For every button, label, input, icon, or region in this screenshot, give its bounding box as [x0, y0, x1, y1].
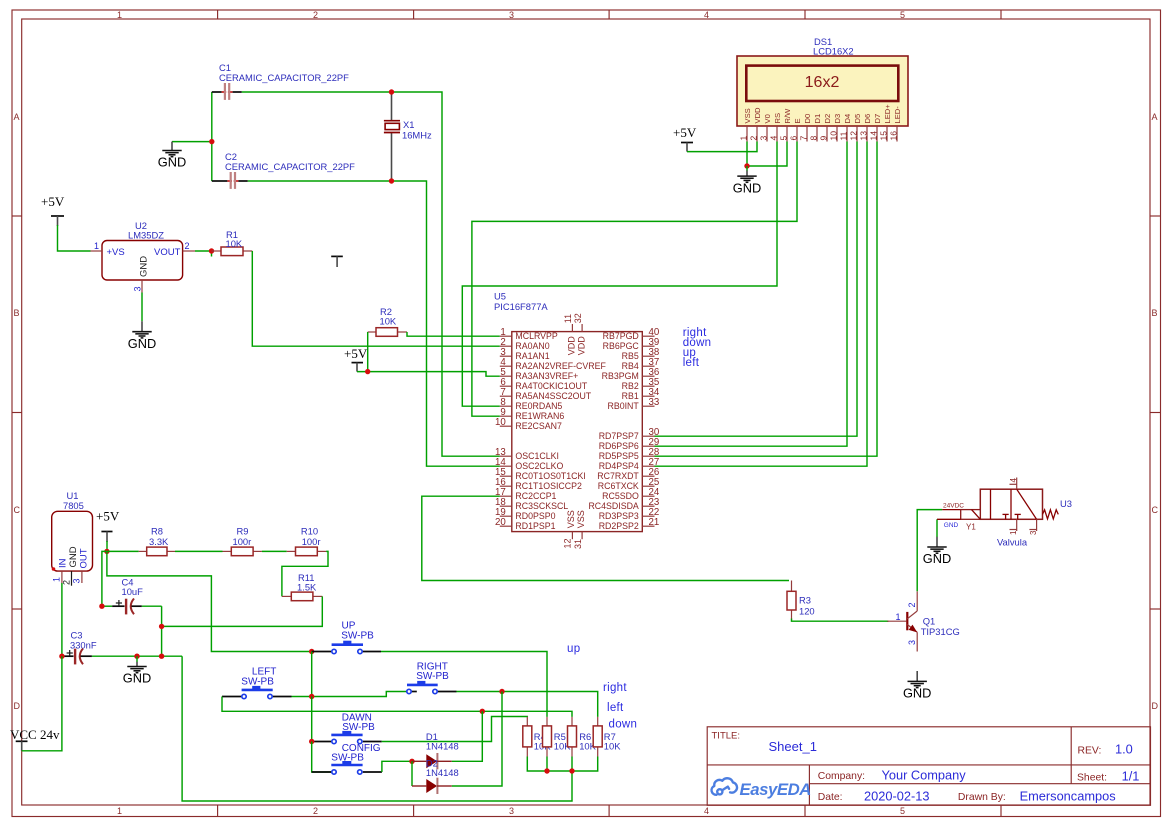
svg-text:1: 1	[896, 612, 901, 622]
wire gnd rail down to bottom rail	[182, 656, 572, 801]
svg-text:REV:: REV:	[1078, 745, 1102, 756]
svg-text:IN: IN	[58, 558, 69, 568]
resistor R2	[368, 306, 407, 336]
node junction X1 top	[389, 89, 394, 94]
wire +5V down to junction	[106, 541, 108, 551]
svg-text:1: 1	[1009, 530, 1018, 535]
wire U1 IN down to VCC rail	[61, 583, 63, 656]
svg-text:R9: R9	[237, 526, 249, 537]
svg-text:1: 1	[739, 136, 749, 141]
SECTION:BUTTONS	[222, 621, 637, 795]
svg-text:14: 14	[869, 131, 879, 141]
svg-text:120: 120	[799, 606, 815, 617]
node junction diode anodes	[409, 759, 414, 764]
svg-text:A: A	[1152, 112, 1158, 122]
svg-text:4: 4	[1009, 478, 1018, 483]
wire left vertical C1-C2	[211, 92, 213, 181]
svg-text:Sheet_1: Sheet_1	[769, 739, 817, 754]
svg-text:13: 13	[859, 131, 869, 141]
svg-text:RD6PSP6: RD6PSP6	[599, 441, 639, 451]
node junction DAWN row	[309, 739, 314, 744]
svg-text:8: 8	[809, 136, 819, 141]
node junction R2/+5V	[365, 369, 370, 374]
switch UP SW-PB	[312, 621, 381, 654]
svg-text:RA4T0CKIC1OUT: RA4T0CKIC1OUT	[515, 381, 587, 391]
U5 right pin names	[588, 331, 639, 531]
svg-text:2: 2	[62, 580, 72, 585]
power +5V flag left	[41, 194, 65, 226]
svg-text:3: 3	[759, 136, 769, 141]
U5 right pin numbers	[649, 327, 660, 528]
wire LCD D4 to PIC RD6	[655, 142, 848, 447]
ground symbol valve	[923, 537, 951, 566]
svg-text:RD0PSP0: RD0PSP0	[515, 511, 555, 521]
svg-text:1.0: 1.0	[1115, 741, 1133, 756]
svg-text:VDD: VDD	[576, 336, 586, 356]
svg-text:RD1PSP1: RD1PSP1	[515, 521, 555, 531]
svg-text:1: 1	[94, 241, 99, 251]
resistor R1	[212, 229, 253, 256]
svg-text:R3: R3	[799, 595, 811, 606]
wire DAWN to R4	[382, 717, 528, 742]
U5 top/bottom pin numbers	[563, 313, 583, 549]
ground symbol under Q1	[903, 671, 931, 701]
svg-text:C: C	[1152, 505, 1159, 515]
wire +5V to LCD VDD	[687, 142, 757, 152]
svg-text:RA5AN4SSC2OUT: RA5AN4SSC2OUT	[515, 391, 591, 401]
switch LEFT SW-PB	[222, 666, 292, 698]
svg-text:RB6PGC: RB6PGC	[603, 341, 640, 351]
svg-text:A: A	[14, 112, 20, 122]
svg-text:D6: D6	[863, 114, 872, 124]
svg-text:9: 9	[819, 136, 829, 141]
svg-text:U5: U5	[494, 291, 506, 302]
capacitor C2	[212, 151, 355, 189]
svg-text:up: up	[567, 643, 580, 655]
node junction R6 bottom	[569, 768, 574, 773]
wire R9 to R10	[262, 550, 287, 552]
svg-text:D1: D1	[813, 114, 822, 124]
svg-text:16: 16	[889, 131, 899, 141]
svg-text:RS: RS	[773, 113, 782, 124]
svg-text:4: 4	[769, 136, 779, 141]
svg-text:OSC2CLKO: OSC2CLKO	[515, 461, 563, 471]
svg-text:RC5SDO: RC5SDO	[602, 491, 639, 501]
resistor R10	[287, 526, 326, 556]
svg-text:33: 33	[649, 397, 660, 408]
resistor R11	[282, 572, 322, 601]
wire C1 row	[242, 92, 500, 456]
svg-text:16MHz: 16MHz	[402, 130, 432, 141]
SECTION:VALVE	[887, 478, 1072, 701]
SECTION:PIC	[422, 291, 889, 622]
wire LCD D5 to PIC RD7	[655, 142, 858, 437]
wire R2 to PIC MCLR	[407, 332, 500, 336]
wire left-row to R6	[482, 711, 572, 717]
svg-text:6: 6	[789, 136, 799, 141]
wire junction down to C4 row	[102, 551, 107, 606]
wire down to LEFT row	[311, 652, 313, 697]
svg-text:D3: D3	[833, 114, 842, 124]
LCD pins 1-16 stubs and labels	[747, 126, 897, 142]
wire valve gnd	[936, 519, 938, 537]
svg-text:R/W: R/W	[783, 108, 792, 124]
svg-text:10: 10	[829, 131, 839, 141]
wire R10 to R11	[282, 551, 328, 596]
wire C4 right to vertical	[142, 605, 162, 607]
svg-text:SW-PB: SW-PB	[341, 631, 374, 642]
svg-text:2: 2	[185, 241, 190, 251]
transistor Q1 TIP31CG	[887, 591, 959, 651]
svg-text:10uF: 10uF	[122, 586, 144, 597]
svg-text:U3: U3	[1060, 498, 1072, 509]
svg-text:X1: X1	[403, 119, 414, 130]
svg-text:Date:: Date:	[818, 792, 843, 803]
svg-text:Q1: Q1	[923, 616, 936, 627]
resistor R9	[223, 526, 262, 556]
wire R2 left down to +5V junction	[367, 332, 369, 372]
svg-text:CERAMIC_CAPACITOR_22PF: CERAMIC_CAPACITOR_22PF	[225, 161, 355, 172]
svg-text:VDD: VDD	[753, 107, 762, 124]
svg-text:5: 5	[900, 10, 905, 20]
svg-text:D2: D2	[823, 114, 832, 124]
svg-text:2: 2	[749, 136, 759, 141]
svg-text:4: 4	[704, 10, 709, 20]
svg-text:V0: V0	[763, 114, 772, 123]
crystal X1	[384, 93, 432, 180]
svg-text:VOUT: VOUT	[154, 247, 181, 258]
svg-text:16x2: 16x2	[805, 74, 840, 91]
wire C3 to gnd junction	[92, 655, 182, 657]
svg-text:10K: 10K	[380, 316, 397, 327]
SECTION:RBANK	[523, 717, 621, 774]
U5 left pin numbers	[495, 327, 506, 528]
svg-text:B: B	[1152, 308, 1158, 318]
svg-text:Y1: Y1	[966, 523, 976, 532]
svg-text:1N4148: 1N4148	[426, 741, 459, 752]
svg-text:D4: D4	[843, 114, 852, 124]
svg-text:Your Company: Your Company	[882, 767, 967, 782]
svg-text:1: 1	[117, 10, 122, 20]
svg-text:down: down	[609, 718, 638, 730]
EasyEDA logo	[712, 778, 737, 795]
node junction +5V/R8	[104, 549, 109, 554]
node junction left-row	[480, 709, 485, 714]
wire LCD VSS down to gnd junction	[746, 142, 748, 167]
svg-text:3: 3	[907, 640, 917, 645]
capacitor C4	[102, 577, 143, 615]
wire +5V to RA3	[357, 372, 500, 377]
svg-text:3: 3	[509, 806, 514, 816]
wire down to DAWN row	[311, 697, 313, 742]
svg-text:RB3PGM: RB3PGM	[602, 371, 639, 381]
svg-text:3: 3	[72, 578, 82, 583]
node junction gnd	[134, 654, 139, 659]
svg-text:VCC 24v: VCC 24v	[10, 727, 60, 742]
wire +5V to U2 +VS	[58, 225, 91, 251]
svg-text:15: 15	[879, 131, 889, 141]
svg-text:RA2AN2VREF-CVREF: RA2AN2VREF-CVREF	[515, 361, 606, 371]
svg-text:3: 3	[1029, 530, 1038, 535]
svg-text:5: 5	[900, 806, 905, 816]
svg-text:11: 11	[839, 131, 849, 140]
power +5V flag near PIC	[344, 346, 368, 372]
U5 right pin stubs	[642, 336, 654, 526]
svg-text:TIP31CG: TIP31CG	[921, 626, 960, 637]
svg-text:GND: GND	[944, 522, 959, 529]
svg-text:+5V: +5V	[344, 346, 368, 361]
svg-text:3.3K: 3.3K	[149, 536, 169, 547]
resistor R5	[543, 717, 572, 757]
svg-text:4: 4	[704, 806, 709, 816]
wire vertical C4 to C3 row	[161, 606, 163, 656]
svg-text:12: 12	[563, 538, 573, 548]
svg-text:Company:: Company:	[818, 771, 865, 782]
SECTION:TITLEBLOCK	[707, 727, 1150, 806]
wire C2 row	[248, 181, 500, 466]
svg-text:OSC1CLKI: OSC1CLKI	[515, 451, 559, 461]
resistor R8	[107, 526, 175, 556]
U5 left pin stubs	[500, 336, 512, 526]
U5 VDD VSS rotated names	[566, 336, 586, 529]
wire LCD D7 to PIC RD5	[655, 142, 878, 457]
svg-text:D: D	[14, 701, 21, 711]
wire R11 down to C4/C3 vertical	[162, 596, 323, 626]
SECTION:U2LM35	[41, 194, 500, 376]
wire R3 to Q1 base	[792, 619, 889, 622]
power +5V flag near LCD	[673, 125, 697, 152]
svg-text:RD5PSP5: RD5PSP5	[599, 451, 639, 461]
wire UP to R5	[381, 652, 547, 717]
svg-text:1: 1	[52, 577, 62, 582]
svg-text:left: left	[607, 702, 624, 714]
svg-text:C: C	[14, 505, 21, 515]
svg-text:VSS: VSS	[566, 510, 576, 528]
svg-text:10K: 10K	[226, 238, 243, 249]
svg-text:RD2PSP2: RD2PSP2	[599, 521, 639, 531]
svg-text:MCLRVPP: MCLRVPP	[515, 331, 558, 341]
wire resistor bottoms rail	[527, 757, 597, 772]
svg-text:100r: 100r	[233, 536, 252, 547]
wire gnd junction to R/W pin5	[747, 142, 787, 167]
wire U2 pin3 to ground	[141, 293, 143, 322]
wire GND stub top	[172, 141, 212, 143]
svg-text:+5V: +5V	[673, 125, 697, 140]
U5 left pin names	[515, 331, 606, 531]
svg-text:1.5K: 1.5K	[297, 582, 317, 593]
wire LEFT right to junction and RIGHT	[292, 696, 312, 698]
svg-text:RE0RDAN5: RE0RDAN5	[515, 401, 562, 411]
svg-text:D7: D7	[873, 114, 882, 124]
svg-text:31: 31	[573, 539, 583, 549]
op-amp U2 LM35DZ	[91, 220, 196, 293]
wire LCD E to PIC RE1	[472, 142, 797, 417]
svg-text:20: 20	[495, 517, 506, 528]
svg-text:RD3PSP3: RD3PSP3	[599, 511, 639, 521]
wire LEFT left side down to left-row	[222, 697, 482, 712]
svg-text:10: 10	[495, 417, 506, 428]
svg-text:2: 2	[313, 10, 318, 20]
svg-text:32: 32	[573, 313, 583, 323]
svg-text:D5: D5	[853, 114, 862, 124]
svg-text:RC0T1OS0T1CKI: RC0T1OS0T1CKI	[515, 471, 585, 481]
U5 top pin stubs pins 11 32	[572, 324, 582, 332]
node junction C4 left	[99, 604, 104, 609]
svg-text:RC6TXCK: RC6TXCK	[598, 481, 639, 491]
resistor R4	[523, 717, 551, 757]
svg-text:RB4: RB4	[622, 361, 639, 371]
svg-text:GND: GND	[68, 546, 79, 567]
capacitor C1	[212, 62, 349, 100]
SECTION:U1REG	[10, 490, 572, 801]
svg-text:EasyEDA: EasyEDA	[740, 780, 811, 799]
svg-text:7805: 7805	[63, 500, 84, 511]
svg-text:2: 2	[313, 806, 318, 816]
svg-text:+5V: +5V	[96, 509, 120, 524]
power +5V flag above C4	[96, 509, 120, 543]
op-amp U5 PIC16F877A body	[494, 291, 642, 532]
svg-text:330nF: 330nF	[70, 640, 97, 651]
svg-text:RB0INT: RB0INT	[608, 401, 640, 411]
wire U2 VOUT to R1	[195, 250, 212, 252]
svg-text:left: left	[683, 357, 700, 369]
svg-text:5: 5	[779, 136, 789, 141]
node junction C3 left	[59, 654, 64, 659]
svg-text:RA3AN3VREF+: RA3AN3VREF+	[515, 371, 578, 381]
SECTION:TOPAREA	[158, 62, 500, 466]
svg-text:RB2: RB2	[622, 381, 639, 391]
svg-text:LCD16X2: LCD16X2	[813, 46, 854, 57]
node junction R5 bottom	[544, 768, 549, 773]
ground symbol under U2	[128, 332, 156, 351]
svg-text:RA1AN1: RA1AN1	[515, 351, 549, 361]
svg-text:Valvula: Valvula	[997, 537, 1028, 548]
svg-text:SW-PB: SW-PB	[416, 671, 449, 682]
title block frame	[707, 727, 1150, 806]
svg-text:CERAMIC_CAPACITOR_22PF: CERAMIC_CAPACITOR_22PF	[219, 72, 349, 83]
resistor R7	[593, 717, 621, 757]
node junction C1-GND	[209, 139, 214, 144]
power VCC 24v flag	[10, 727, 60, 751]
svg-text:24VDC: 24VDC	[943, 503, 964, 510]
svg-text:LM35DZ: LM35DZ	[128, 230, 164, 241]
ground symbol near LCD	[733, 166, 761, 195]
svg-text:D0: D0	[803, 114, 812, 124]
svg-text:B: B	[14, 308, 20, 318]
ground symbol main	[123, 656, 151, 686]
svg-text:RC3SCKSCL: RC3SCKSCL	[515, 501, 568, 511]
LCD DS1 LCD16X2	[737, 36, 908, 126]
svg-text:3: 3	[133, 286, 143, 291]
node junction VOUT	[209, 248, 214, 253]
wire anode junction down to D2	[411, 761, 413, 786]
svg-text:RB1: RB1	[622, 391, 639, 401]
svg-text:1N4148: 1N4148	[426, 767, 459, 778]
power flag T mid	[331, 256, 343, 267]
wire CONFIG to diodes	[382, 761, 412, 772]
svg-text:1/1: 1/1	[1122, 769, 1140, 784]
node junction C4 vertical	[159, 654, 164, 659]
wire D1 cathode up to left-row	[452, 711, 483, 761]
svg-text:100r: 100r	[302, 536, 321, 547]
svg-text:Emersoncampos: Emersoncampos	[1020, 788, 1116, 803]
wire LCD D6 to PIC RD4	[655, 142, 868, 467]
svg-text:E: E	[793, 118, 802, 123]
U5 bottom pin stubs pins 12 31	[572, 532, 582, 540]
resistor R3	[787, 581, 815, 620]
node junction R11 return	[159, 624, 164, 629]
svg-text:RB5: RB5	[622, 351, 639, 361]
svg-text:11: 11	[563, 314, 573, 323]
wire stub below junction	[211, 251, 213, 257]
svg-text:TITLE:: TITLE:	[712, 731, 741, 742]
svg-text:RD7PSP7: RD7PSP7	[599, 431, 639, 441]
svg-text:1: 1	[117, 806, 122, 816]
wire RIGHT to R7	[456, 692, 597, 717]
SECTION:LCD	[462, 36, 908, 466]
svg-text:21: 21	[649, 517, 660, 528]
svg-text:RB7PGD: RB7PGD	[603, 331, 639, 341]
svg-text:+VS: +VS	[107, 247, 125, 258]
svg-text:VSS: VSS	[576, 510, 586, 528]
node junction LEFT row	[309, 694, 314, 699]
svg-text:VDD: VDD	[567, 336, 577, 356]
svg-text:LED-: LED-	[893, 106, 902, 124]
node junction UP feed	[309, 649, 314, 654]
svg-text:2: 2	[907, 602, 917, 607]
resistor R6	[568, 717, 597, 757]
svg-text:12: 12	[849, 131, 859, 141]
svg-text:OUT: OUT	[79, 548, 90, 568]
svg-text:10K: 10K	[604, 741, 621, 752]
svg-text:2020-02-13: 2020-02-13	[864, 788, 929, 803]
svg-text:Drawn By:: Drawn By:	[958, 792, 1006, 803]
svg-text:RE2CSAN7: RE2CSAN7	[515, 421, 562, 431]
switch RIGHT SW-PB	[406, 662, 457, 694]
svg-text:RC2CCP1: RC2CCP1	[515, 491, 556, 501]
svg-text:RD4PSP4: RD4PSP4	[599, 461, 639, 471]
switch DAWN SW-PB	[312, 712, 382, 743]
svg-text:Sheet:: Sheet:	[1077, 773, 1107, 784]
capacitor C3	[62, 630, 97, 665]
wire LCD RS to PIC RE0	[462, 142, 777, 407]
svg-text:7: 7	[799, 136, 809, 141]
wire R8 to R9	[175, 550, 223, 552]
svg-text:D: D	[1152, 701, 1159, 711]
wire Q1 collector up to valve	[917, 510, 942, 592]
svg-text:R10: R10	[301, 526, 318, 537]
node junction LCD gnd	[744, 163, 749, 168]
svg-text:RE1WRAN6: RE1WRAN6	[515, 411, 564, 421]
svg-text:R8: R8	[151, 526, 163, 537]
svg-text:+5V: +5V	[41, 194, 65, 209]
svg-text:VSS: VSS	[743, 108, 752, 123]
wire junction down to button feed	[107, 551, 312, 651]
node junction X1 bottom	[389, 178, 394, 183]
diode D2 1N4148	[412, 758, 459, 795]
svg-text:RC1T1OSICCP2: RC1T1OSICCP2	[515, 481, 582, 491]
ground symbol top-left	[158, 142, 186, 170]
svg-text:GND: GND	[139, 256, 150, 277]
wire RC2 to R3	[422, 496, 789, 580]
wire D2 cathode up to right-row	[452, 692, 502, 787]
svg-text:right: right	[603, 682, 627, 694]
wire down to CONFIG row	[312, 742, 332, 773]
valve U3 Valvula	[937, 478, 1072, 548]
wire VCC to U1 IN	[22, 656, 62, 751]
svg-text:SW-PB: SW-PB	[241, 677, 274, 688]
switch CONFIG SW-PB	[312, 743, 382, 774]
